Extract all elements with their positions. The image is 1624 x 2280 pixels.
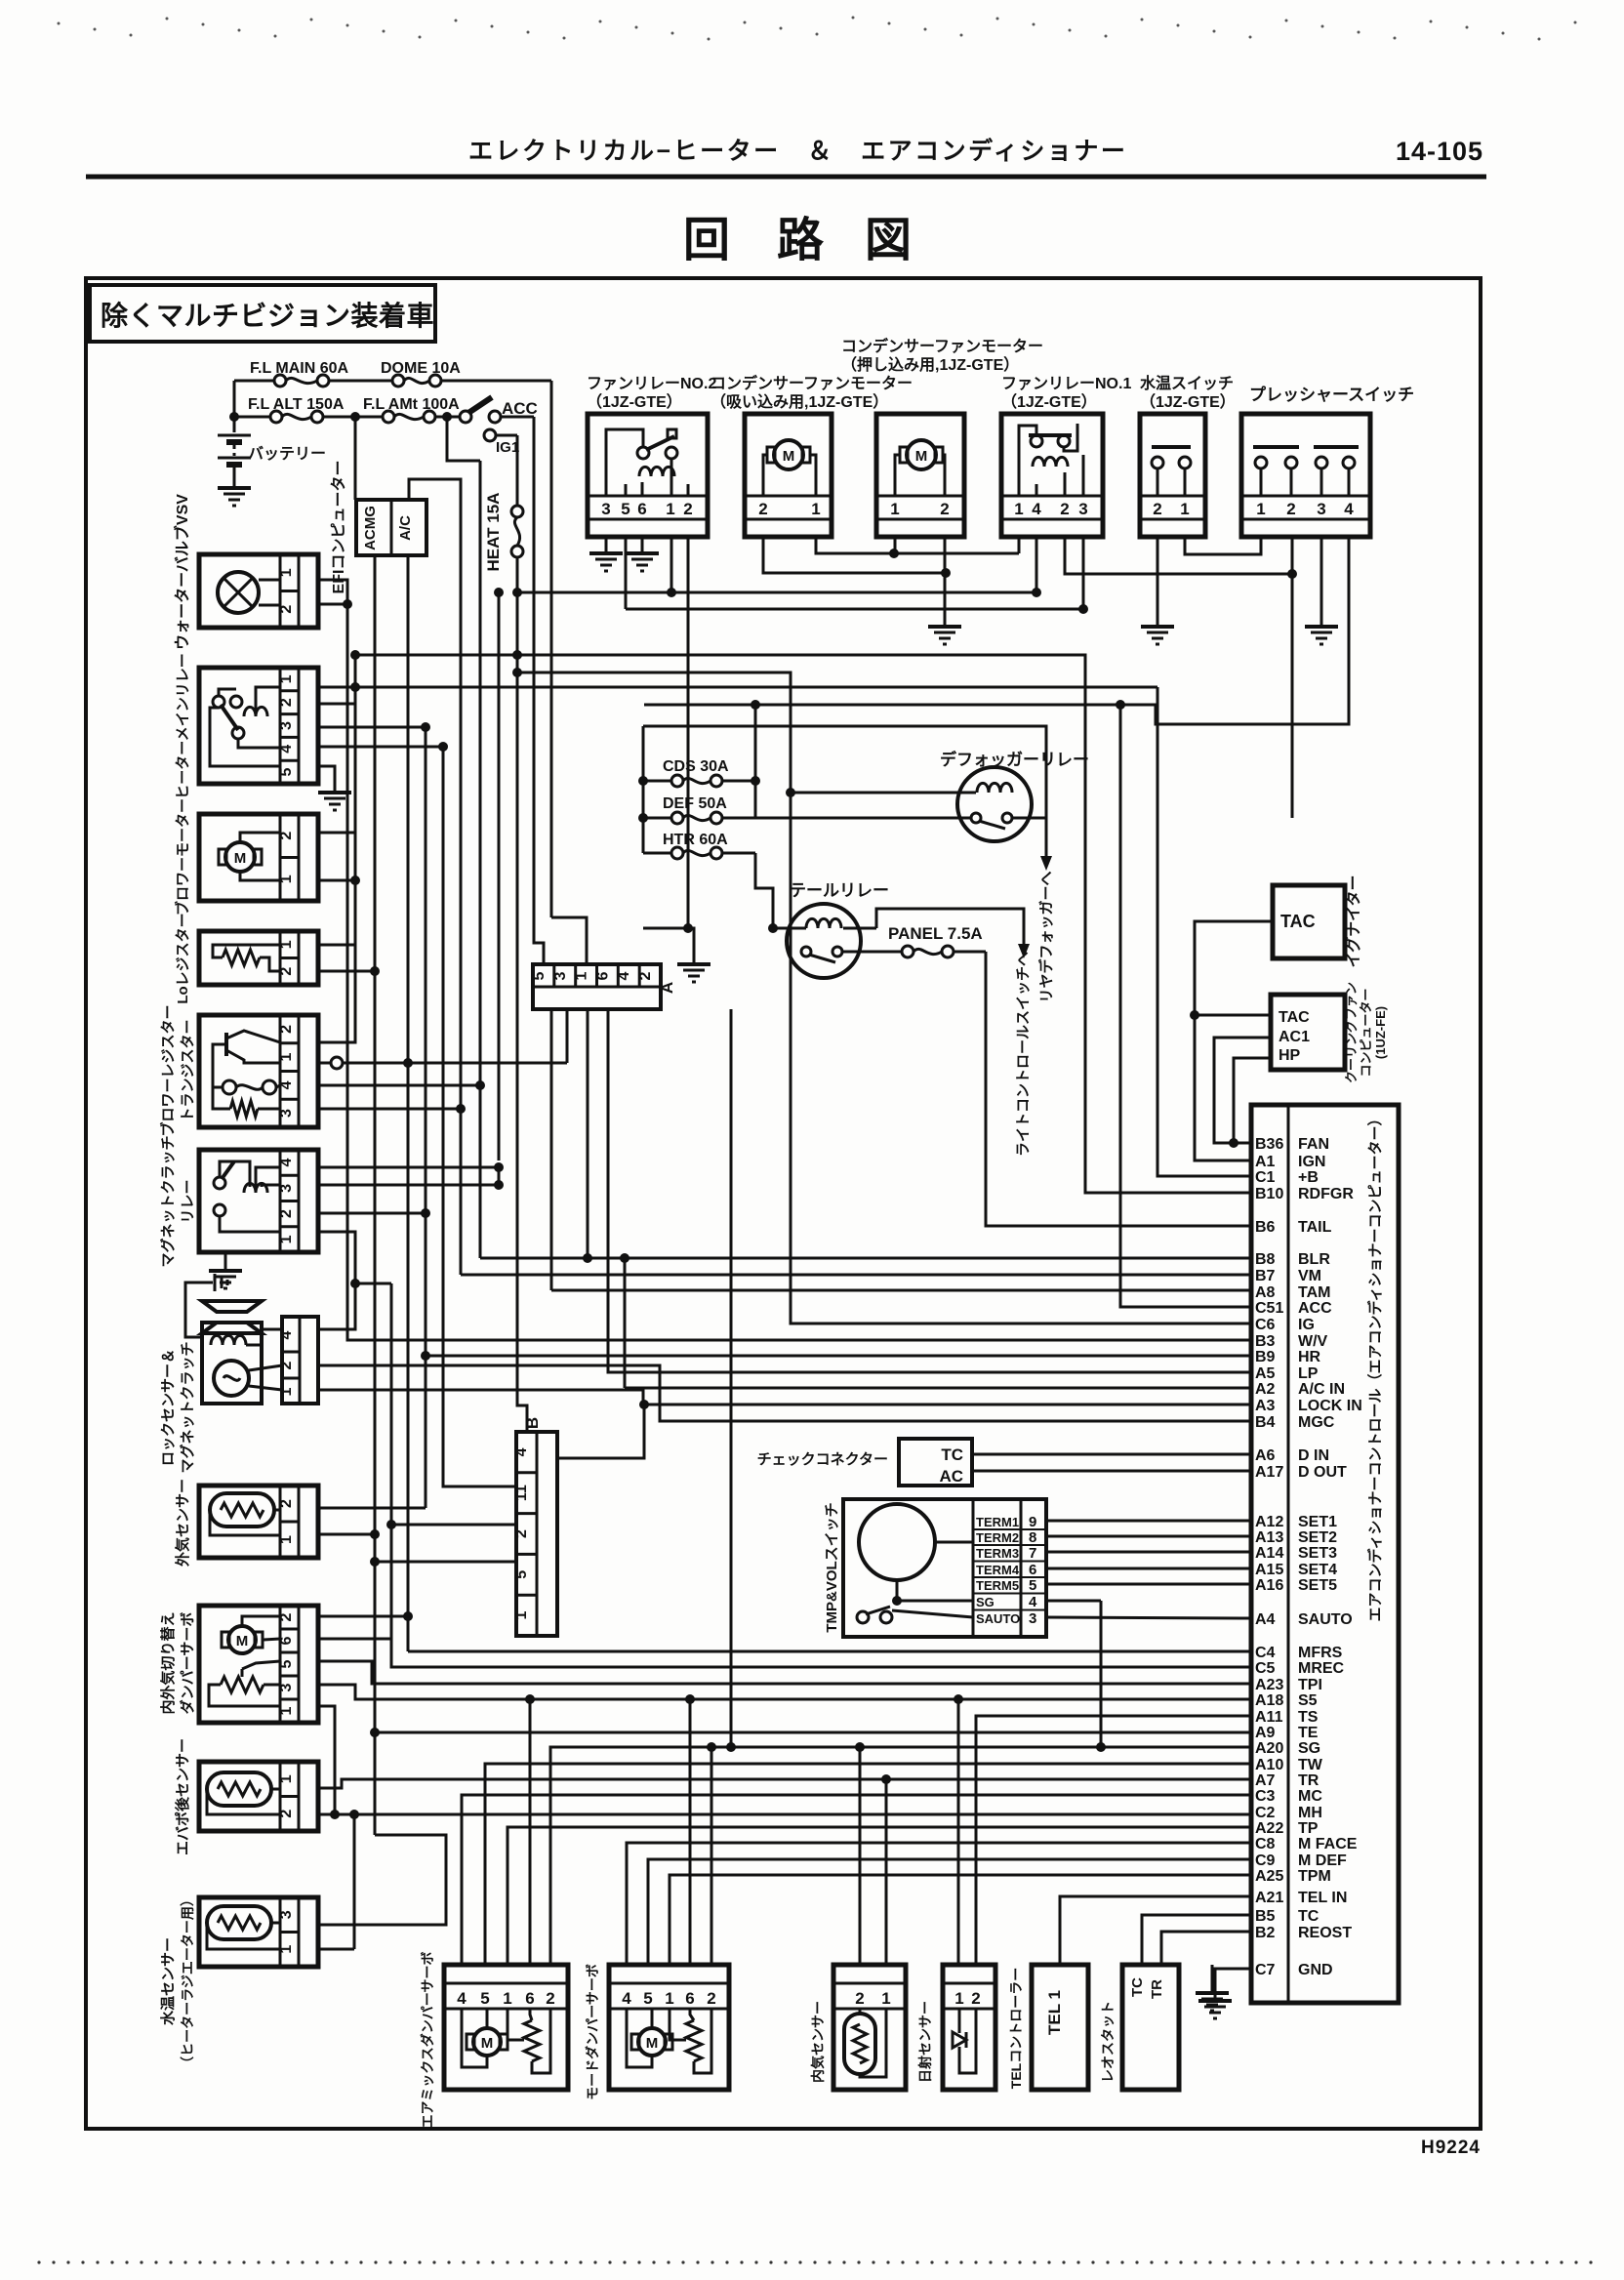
svg-text:回: 回 — [683, 215, 730, 266]
svg-text:エレクトリカル−ヒーター ＆ エアコンディショナー: エレクトリカル−ヒーター ＆ エアコンディショナー — [468, 137, 1127, 165]
wire water temp pin3 to bus x384 — [318, 1835, 446, 1925]
svg-text:A18: A18 — [1255, 1692, 1283, 1709]
wire BLR row from bus x492 — [480, 1257, 1251, 1260]
svg-text:5: 5 — [480, 1989, 489, 2008]
condenser fan motor label (吸い込み用,1JZ-GTE) — [710, 374, 913, 411]
water temp switch label 水温スイッチ (1JZ-GTE) — [1140, 374, 1236, 411]
svg-text:2: 2 — [278, 1612, 295, 1621]
svg-text:2: 2 — [707, 1989, 715, 2008]
svg-text:ウォーターバルブVSV: ウォーターバルブVSV — [173, 494, 191, 650]
svg-text:1: 1 — [954, 1989, 963, 2008]
svg-text:A4: A4 — [1255, 1611, 1276, 1628]
svg-text:リヤデフォッガーへ: リヤデフォッガーへ — [1037, 871, 1055, 1002]
wire B5 TC row — [1142, 1915, 1251, 1965]
svg-text:TC: TC — [1298, 1908, 1319, 1925]
svg-text:2: 2 — [278, 1810, 295, 1818]
svg-text:A21: A21 — [1255, 1890, 1283, 1906]
svg-text:3: 3 — [1078, 500, 1087, 518]
svg-text:2: 2 — [637, 971, 654, 980]
svg-text:1: 1 — [278, 1053, 295, 1062]
servo internals in/out air — [199, 1606, 318, 1723]
svg-text:A1: A1 — [1255, 1154, 1276, 1170]
fuse HEAT 15A — [484, 435, 523, 592]
svg-text:ファンリレーNO.1: ファンリレーNO.1 — [1001, 376, 1131, 392]
scan noise dotted line bottom — [37, 2260, 1592, 2263]
wire blower resistor pin4 to bus x492 — [318, 1080, 485, 1090]
wire VM row from bus x472 — [461, 1274, 1251, 1277]
wire ACC jog x458 to x492 — [447, 417, 480, 461]
svg-text:EFIコンピューター: EFIコンピューター — [330, 461, 347, 594]
switch ACC — [460, 397, 538, 423]
svg-text:C7: C7 — [1255, 1962, 1276, 1978]
svg-text:VM: VM — [1298, 1268, 1321, 1284]
svg-text:クーリングファン: クーリングファン — [1344, 982, 1359, 1083]
svg-text:A10: A10 — [1255, 1757, 1283, 1773]
wire TE row from ACMG bus x384 — [370, 1728, 1251, 1737]
wire Lo resistor pin1 up — [318, 833, 355, 945]
wire TP row from air mix pin1 — [507, 1827, 1251, 1965]
svg-text:1: 1 — [278, 1235, 295, 1243]
wire heater relay pin3 bus x436 — [318, 722, 430, 1508]
page header title — [468, 137, 1127, 165]
igniter box TAC イグナイター — [1273, 875, 1362, 967]
svg-text:マグネットクラッチ: マグネットクラッチ — [179, 1341, 196, 1473]
page number 14-105 — [1396, 137, 1483, 166]
wire TPM row from mode pin1 — [670, 1875, 1251, 1965]
lock sensor body — [202, 1323, 262, 1404]
svg-text:2: 2 — [278, 1499, 295, 1508]
wire blower resistor pin2 up — [318, 945, 355, 1042]
svg-text:TEL IN: TEL IN — [1298, 1890, 1347, 1906]
TEL controller box TELコントローラー — [1008, 1965, 1088, 2090]
connector ACMG / A/C (EFI computer) — [356, 500, 426, 555]
svg-text:A15: A15 — [1255, 1562, 1283, 1578]
svg-text:1: 1 — [278, 568, 295, 577]
svg-text:5: 5 — [1029, 1577, 1036, 1594]
wire bus x566 lower segment — [550, 1009, 553, 1290]
svg-text:4: 4 — [1032, 500, 1041, 518]
svg-text:4: 4 — [1029, 1594, 1037, 1610]
compressor pulley — [202, 1301, 262, 1333]
svg-text:W/V: W/V — [1298, 1333, 1328, 1350]
water valve VSV label ウォーターバルブVSV — [173, 494, 191, 650]
svg-text:TC: TC — [1129, 1977, 1146, 1997]
wire fan relay no2 pin2 down to ground wire — [683, 537, 693, 933]
svg-text:6: 6 — [685, 1989, 694, 2008]
svg-text:レオスタット: レオスタット — [1100, 2001, 1116, 2083]
svg-text:ロックセンサー＆: ロックセンサー＆ — [160, 1349, 177, 1466]
svg-text:REOST: REOST — [1298, 1925, 1352, 1941]
svg-text:1: 1 — [278, 674, 295, 683]
svg-text:（1JZ-GTE）: （1JZ-GTE） — [587, 393, 682, 411]
wire A/C pin down bus x418 — [403, 555, 413, 1651]
svg-text:HEAT 15A: HEAT 15A — [484, 493, 503, 572]
fuse DEF 50A — [643, 795, 755, 824]
svg-text:SG: SG — [976, 1595, 995, 1609]
svg-text:1: 1 — [1256, 500, 1265, 518]
svg-text:S5: S5 — [1298, 1692, 1318, 1709]
solar sensor box — [943, 1965, 995, 2090]
wire MFRS row — [408, 1650, 1251, 1653]
condenser fan motor label (押し込み用,1JZ-GTE) — [841, 337, 1043, 374]
wire TAM row from bus x566 — [551, 1289, 1251, 1292]
svg-text:TMP&VOLスイッチ: TMP&VOLスイッチ — [824, 1502, 840, 1632]
svg-text:2: 2 — [758, 500, 767, 518]
svg-text:6: 6 — [525, 1989, 534, 2008]
wire B2 REOST row — [1161, 1932, 1251, 1965]
wire pressure pin2 down — [1291, 574, 1294, 818]
wire cooling fan HP — [1229, 1058, 1271, 1148]
wire evap pin1 to TR row — [318, 1774, 1251, 1965]
wire MC row from air mix pin4 — [462, 1795, 1251, 1965]
svg-text:2: 2 — [940, 500, 949, 518]
inside air sensor label 内気センサー — [810, 2001, 826, 2083]
svg-text:MH: MH — [1298, 1805, 1322, 1821]
svg-text:LOCK IN: LOCK IN — [1298, 1398, 1362, 1414]
wire suction motor pin2 — [763, 537, 951, 578]
svg-text:2: 2 — [855, 1989, 864, 2008]
wire lock connector pin4 row — [318, 1283, 355, 1329]
svg-text:1: 1 — [665, 1989, 673, 2008]
svg-text:ACMG: ACMG — [362, 506, 379, 550]
svg-text:マグネットクラッチ: マグネットクラッチ — [159, 1135, 177, 1267]
wire ACC bus x547 down to connector A — [534, 417, 544, 964]
wire fan relay no1 pin4 to bus y607 — [1035, 537, 1038, 592]
battery バッテリー — [218, 417, 326, 486]
svg-text:ACC: ACC — [1298, 1300, 1332, 1317]
svg-text:1: 1 — [811, 500, 820, 518]
relay internals heater main relay — [199, 668, 318, 784]
wire M FACE row from mode pin4 — [627, 1843, 1251, 1965]
svg-text:A: A — [658, 982, 676, 994]
svg-text:リレー: リレー — [180, 1179, 196, 1223]
svg-text:H9224: H9224 — [1421, 2137, 1481, 2158]
wire ACMG feed from fuse junction — [354, 417, 357, 500]
wire magnet relay pin2 up bus x436 — [318, 1208, 430, 1218]
wire water switch pin1 to pressure pin1 — [1185, 537, 1261, 554]
svg-text:図: 図 — [865, 215, 912, 266]
svg-text:1: 1 — [1180, 500, 1189, 518]
connector (lock sensor) pins 4,2,1 — [246, 1317, 318, 1404]
wire DEF fuse to defogger switch — [755, 817, 971, 820]
ground (fan relay no2 pin3) — [589, 537, 623, 571]
svg-text:HTR 60A: HTR 60A — [663, 832, 728, 848]
svg-text:2: 2 — [278, 605, 295, 614]
wire fan relay no1 pin3 to bus y624 — [1082, 537, 1085, 609]
ground (battery) — [218, 488, 251, 506]
svg-text:TP: TP — [1298, 1820, 1319, 1837]
relay label ファンリレーNO.1 (1JZ-GTE) — [1001, 376, 1131, 411]
svg-text:3: 3 — [278, 721, 295, 730]
svg-text:4: 4 — [622, 1989, 631, 2008]
svg-text:1: 1 — [278, 940, 295, 949]
wire SAUTO row — [1046, 1617, 1251, 1618]
svg-text:SET3: SET3 — [1298, 1545, 1337, 1562]
svg-text:TE: TE — [1298, 1725, 1319, 1741]
svg-text:A16: A16 — [1255, 1577, 1283, 1594]
svg-text:C3: C3 — [1255, 1788, 1276, 1805]
svg-text:ヒーターメインリレー: ヒーターメインリレー — [175, 653, 191, 798]
wire bus x472 to VM row — [409, 479, 461, 1275]
svg-text:（押し込み用,1JZ-GTE）: （押し込み用,1JZ-GTE） — [841, 355, 1019, 374]
wire TW row from air mix pin5 — [485, 1764, 1251, 1965]
svg-text:A12: A12 — [1255, 1514, 1283, 1530]
ground (lock sensor) — [185, 1274, 227, 1337]
fuse CDS 30A — [643, 758, 755, 787]
page code H9224 — [1421, 2137, 1481, 2158]
svg-text:D IN: D IN — [1298, 1447, 1329, 1464]
transistor label ブロワーレジスター・トランジスター — [159, 1004, 196, 1136]
solar sensor label 日射センサー — [917, 2001, 933, 2083]
svg-text:TERM2: TERM2 — [976, 1530, 1019, 1545]
fuse PANEL 7.5A — [888, 924, 986, 957]
svg-text:RDFGR: RDFGR — [1298, 1186, 1354, 1202]
svg-text:D OUT: D OUT — [1298, 1464, 1347, 1481]
fuse F.L MAIN 60A — [234, 360, 392, 387]
svg-text:4: 4 — [278, 745, 295, 753]
switch IG1 — [484, 429, 519, 456]
svg-text:A23: A23 — [1255, 1677, 1283, 1693]
svg-text:水温センサー: 水温センサー — [159, 1937, 177, 2025]
svg-text:Loレジスター: Loレジスター — [175, 913, 191, 1003]
svg-text:GND: GND — [1298, 1962, 1333, 1978]
svg-text:MC: MC — [1298, 1788, 1322, 1805]
wire tail relay to light control switch ライトコントロールスイッチへ — [876, 909, 1032, 1157]
ground (heater main relay pin5) — [318, 766, 351, 810]
wire fan relay no2 pin1 to bus y607 — [670, 537, 673, 592]
svg-text:CDS 30A: CDS 30A — [663, 758, 729, 775]
header rule — [86, 175, 1486, 180]
wire in/out servo pin3 jog to S5 row — [318, 1685, 1251, 1699]
wire water temp pin1 to bus x363 — [318, 1948, 354, 1951]
svg-text:5: 5 — [643, 1989, 652, 2008]
svg-text:A/C IN: A/C IN — [1298, 1381, 1345, 1398]
svg-text:路: 路 — [777, 215, 825, 266]
node battery junction — [229, 381, 239, 422]
svg-text:3: 3 — [278, 1910, 295, 1919]
ground (fan relay no2 pin6) — [626, 537, 659, 571]
svg-text:BLR: BLR — [1298, 1251, 1330, 1268]
svg-text:C2: C2 — [1255, 1805, 1276, 1821]
condenser fan motor push box — [876, 414, 964, 537]
wire heater relay pin4 bus x454 to B pin11 — [318, 742, 516, 1486]
svg-text:エアコンディショナーコントロール（エアコンディショナーコンピ: エアコンディショナーコントロール（エアコンディショナーコンピューター） — [1366, 1112, 1384, 1622]
svg-text:バッテリー: バッテリー — [248, 445, 326, 463]
svg-text:TERM4: TERM4 — [976, 1563, 1020, 1577]
svg-text:外気センサー: 外気センサー — [174, 1479, 191, 1567]
svg-text:DEF 50A: DEF 50A — [663, 795, 727, 812]
svg-text:モードダンパーサーボ: モードダンパーサーボ — [585, 1964, 600, 2100]
svg-text:FAN: FAN — [1298, 1136, 1329, 1153]
thermistor evaporator — [199, 1762, 318, 1831]
svg-text:7: 7 — [1029, 1545, 1036, 1562]
svg-text:1: 1 — [890, 500, 899, 518]
wire M DEF row from mode pin5 — [648, 1859, 1251, 1965]
svg-text:C6: C6 — [1255, 1317, 1276, 1333]
cooling fan computer クーリングファンコンピューター (1UZ-FE) — [1271, 982, 1388, 1083]
svg-text:テールリレー: テールリレー — [790, 881, 889, 900]
svg-text:A2: A2 — [1255, 1381, 1276, 1398]
wire blower resistor pin1 node to B11 — [318, 1057, 567, 1069]
svg-text:F.L ALT 150A: F.L ALT 150A — [248, 396, 345, 413]
wire A/C IN row from bus x640 — [620, 1253, 1251, 1388]
wire push motor pin1 — [894, 537, 897, 553]
svg-text:5: 5 — [531, 971, 548, 980]
svg-text:A17: A17 — [1255, 1464, 1283, 1481]
svg-text:A6: A6 — [1255, 1447, 1276, 1464]
svg-text:TERM5: TERM5 — [976, 1578, 1019, 1593]
wire heater relay pin1 row to +B pin — [318, 655, 1251, 1176]
svg-text:1: 1 — [666, 500, 674, 518]
svg-text:3: 3 — [1317, 500, 1325, 518]
svg-text:1: 1 — [278, 875, 295, 883]
svg-text:B9: B9 — [1255, 1349, 1276, 1365]
svg-text:3: 3 — [601, 500, 610, 518]
svg-text:除くマルチビジョン装着車: 除くマルチビジョン装着車 — [101, 300, 434, 331]
TMP&VOL internals — [843, 1499, 1046, 1637]
blower resistor internals — [199, 1015, 318, 1127]
water temp switch box — [1140, 414, 1205, 537]
svg-text:1: 1 — [574, 971, 590, 980]
wire evap pin2 MH row — [318, 1810, 1251, 1949]
svg-text:コンピューター: コンピューター — [1359, 988, 1373, 1077]
wire blower pin2 up to bus x364 — [318, 704, 355, 833]
wire cooling fan TAC — [1195, 1014, 1271, 1017]
damper servo label 内外気切り替えダンパーサーボ — [159, 1611, 196, 1714]
wire ambient pin2 to bus x436 — [318, 1507, 426, 1510]
svg-text:SG: SG — [1298, 1740, 1320, 1757]
svg-text:A5: A5 — [1255, 1365, 1276, 1382]
svg-text:9: 9 — [1029, 1514, 1036, 1530]
svg-text:C4: C4 — [1255, 1645, 1276, 1661]
wire check connector TC to D IN — [972, 1453, 1251, 1456]
wire connector A ground feed — [642, 927, 645, 930]
evaporator sensor label エバポ後センサー — [174, 1738, 191, 1855]
ground (magnet clutch relay) — [209, 1252, 242, 1288]
relay デフォッガーリレー — [786, 750, 1089, 841]
relay internals magnet clutch relay — [199, 1150, 318, 1252]
svg-text:4: 4 — [278, 1330, 295, 1339]
wire fan relay no1 pin1 to motor row y567 — [1018, 537, 1021, 553]
wire lock connector pin2 to MGC pin — [318, 1365, 1251, 1421]
svg-text:A13: A13 — [1255, 1529, 1283, 1546]
svg-text:A9: A9 — [1255, 1725, 1276, 1741]
svg-text:SET1: SET1 — [1298, 1514, 1337, 1530]
svg-text:（1JZ-GTE）: （1JZ-GTE） — [1140, 393, 1236, 411]
svg-text:A25: A25 — [1255, 1868, 1283, 1885]
svg-text:A/C: A/C — [397, 515, 414, 541]
svg-text:A20: A20 — [1255, 1740, 1283, 1757]
connector B — [513, 1417, 557, 1636]
svg-text:1: 1 — [278, 1706, 295, 1715]
lock sensor label ロックセンサー＆マグネットクラッチ — [160, 1341, 196, 1473]
svg-text:コンデンサーファンモーター: コンデンサーファンモーター — [841, 337, 1043, 355]
wire tail relay switch to PANEL fuse — [843, 951, 902, 954]
svg-text:内気センサー: 内気センサー — [810, 2001, 826, 2083]
wire TAC igniter to IGN pin — [1190, 921, 1273, 1160]
svg-text:4: 4 — [278, 1080, 295, 1089]
wire suction motor pin1 — [816, 537, 1019, 558]
svg-text:2: 2 — [278, 1025, 295, 1034]
svg-text:A22: A22 — [1255, 1820, 1283, 1837]
ground (near connector A) — [643, 928, 710, 982]
svg-text:ブロワーレジスター: ブロワーレジスター — [159, 1004, 177, 1136]
svg-text:4: 4 — [457, 1989, 467, 2008]
svg-text:2: 2 — [278, 1209, 295, 1218]
svg-text:B10: B10 — [1255, 1186, 1283, 1202]
svg-text:A14: A14 — [1255, 1545, 1283, 1562]
wire bus x511 up — [494, 588, 504, 1160]
ambient sensor label 外気センサー — [174, 1479, 191, 1567]
svg-text:14-105: 14-105 — [1396, 137, 1483, 166]
svg-text:ファンリレーNO.2: ファンリレーNO.2 — [587, 376, 716, 392]
svg-text:TAM: TAM — [1298, 1284, 1330, 1301]
svg-text:DOME 10A: DOME 10A — [381, 360, 461, 377]
svg-text:SET4: SET4 — [1298, 1562, 1337, 1578]
wire TEL IN row — [1060, 1896, 1251, 1965]
svg-text:MGC: MGC — [1298, 1414, 1335, 1431]
wire cooling fan AC1 to FAN pin — [1214, 1038, 1271, 1143]
svg-text:2: 2 — [546, 1989, 554, 2008]
svg-text:B6: B6 — [1255, 1219, 1276, 1236]
svg-text:2: 2 — [1286, 500, 1295, 518]
scan noise specks top — [58, 17, 1577, 41]
fuse F.L AMt 100A — [355, 396, 460, 423]
wire HTR output to tail relay — [755, 853, 773, 928]
svg-text:エアミックスダンパーサーボ: エアミックスダンパーサーボ — [420, 1951, 435, 2128]
svg-text:B36: B36 — [1255, 1136, 1283, 1153]
wire CDS/DEF output vertical x774 — [751, 700, 760, 818]
motor symbol blower — [199, 814, 318, 901]
svg-text:3: 3 — [552, 971, 569, 980]
svg-text:B3: B3 — [1255, 1333, 1276, 1350]
svg-text:6: 6 — [278, 1636, 295, 1645]
svg-text:TELコントローラー: TELコントローラー — [1008, 1968, 1024, 2089]
condenser fan motor suction box — [745, 414, 832, 537]
wire bus x401 down — [390, 1283, 393, 1639]
svg-text:5: 5 — [278, 1659, 295, 1668]
svg-text:TC: TC — [941, 1445, 963, 1464]
caption box 除くマルチビジョン装着車 — [90, 285, 435, 342]
svg-text:1: 1 — [1014, 500, 1023, 518]
svg-text:1: 1 — [278, 1945, 295, 1954]
svg-text:C8: C8 — [1255, 1836, 1276, 1852]
wire fan relay no1 pin2 to pressure pin2 — [1065, 537, 1297, 579]
svg-text:6: 6 — [594, 971, 611, 980]
resistor symbol Lo — [199, 931, 318, 985]
svg-text:2: 2 — [683, 500, 692, 518]
svg-text:TPI: TPI — [1298, 1677, 1322, 1693]
check connector チェックコネクター — [757, 1439, 972, 1486]
svg-text:エバポ後センサー: エバポ後センサー — [174, 1738, 191, 1855]
svg-text:M: M — [236, 1633, 249, 1649]
svg-text:コンデンサーファンモーター: コンデンサーファンモーター — [710, 374, 913, 392]
wire bus x581 from connector A — [566, 1009, 569, 1063]
svg-text:（吸い込み用,1JZ-GTE）: （吸い込み用,1JZ-GTE） — [710, 393, 888, 411]
svg-text:6: 6 — [1029, 1562, 1036, 1578]
node fuse junctions — [350, 412, 452, 422]
svg-text:B4: B4 — [1255, 1414, 1276, 1431]
wire blower resistor pin3 to bus x472 — [318, 1104, 466, 1114]
wire TMP SG feed — [1046, 1600, 1101, 1603]
svg-text:トランジスター: トランジスター — [180, 1019, 196, 1121]
svg-text:A8: A8 — [1255, 1284, 1276, 1301]
svg-text:1: 1 — [503, 1989, 511, 2008]
wire heater relay pin2 up to pin1 node — [318, 687, 355, 704]
wire magnet relay pin4 row — [318, 1162, 504, 1172]
ground (C7 GND) — [1198, 1969, 1251, 2018]
wire in/out servo pin5 jog to TPI row — [318, 1661, 1251, 1684]
